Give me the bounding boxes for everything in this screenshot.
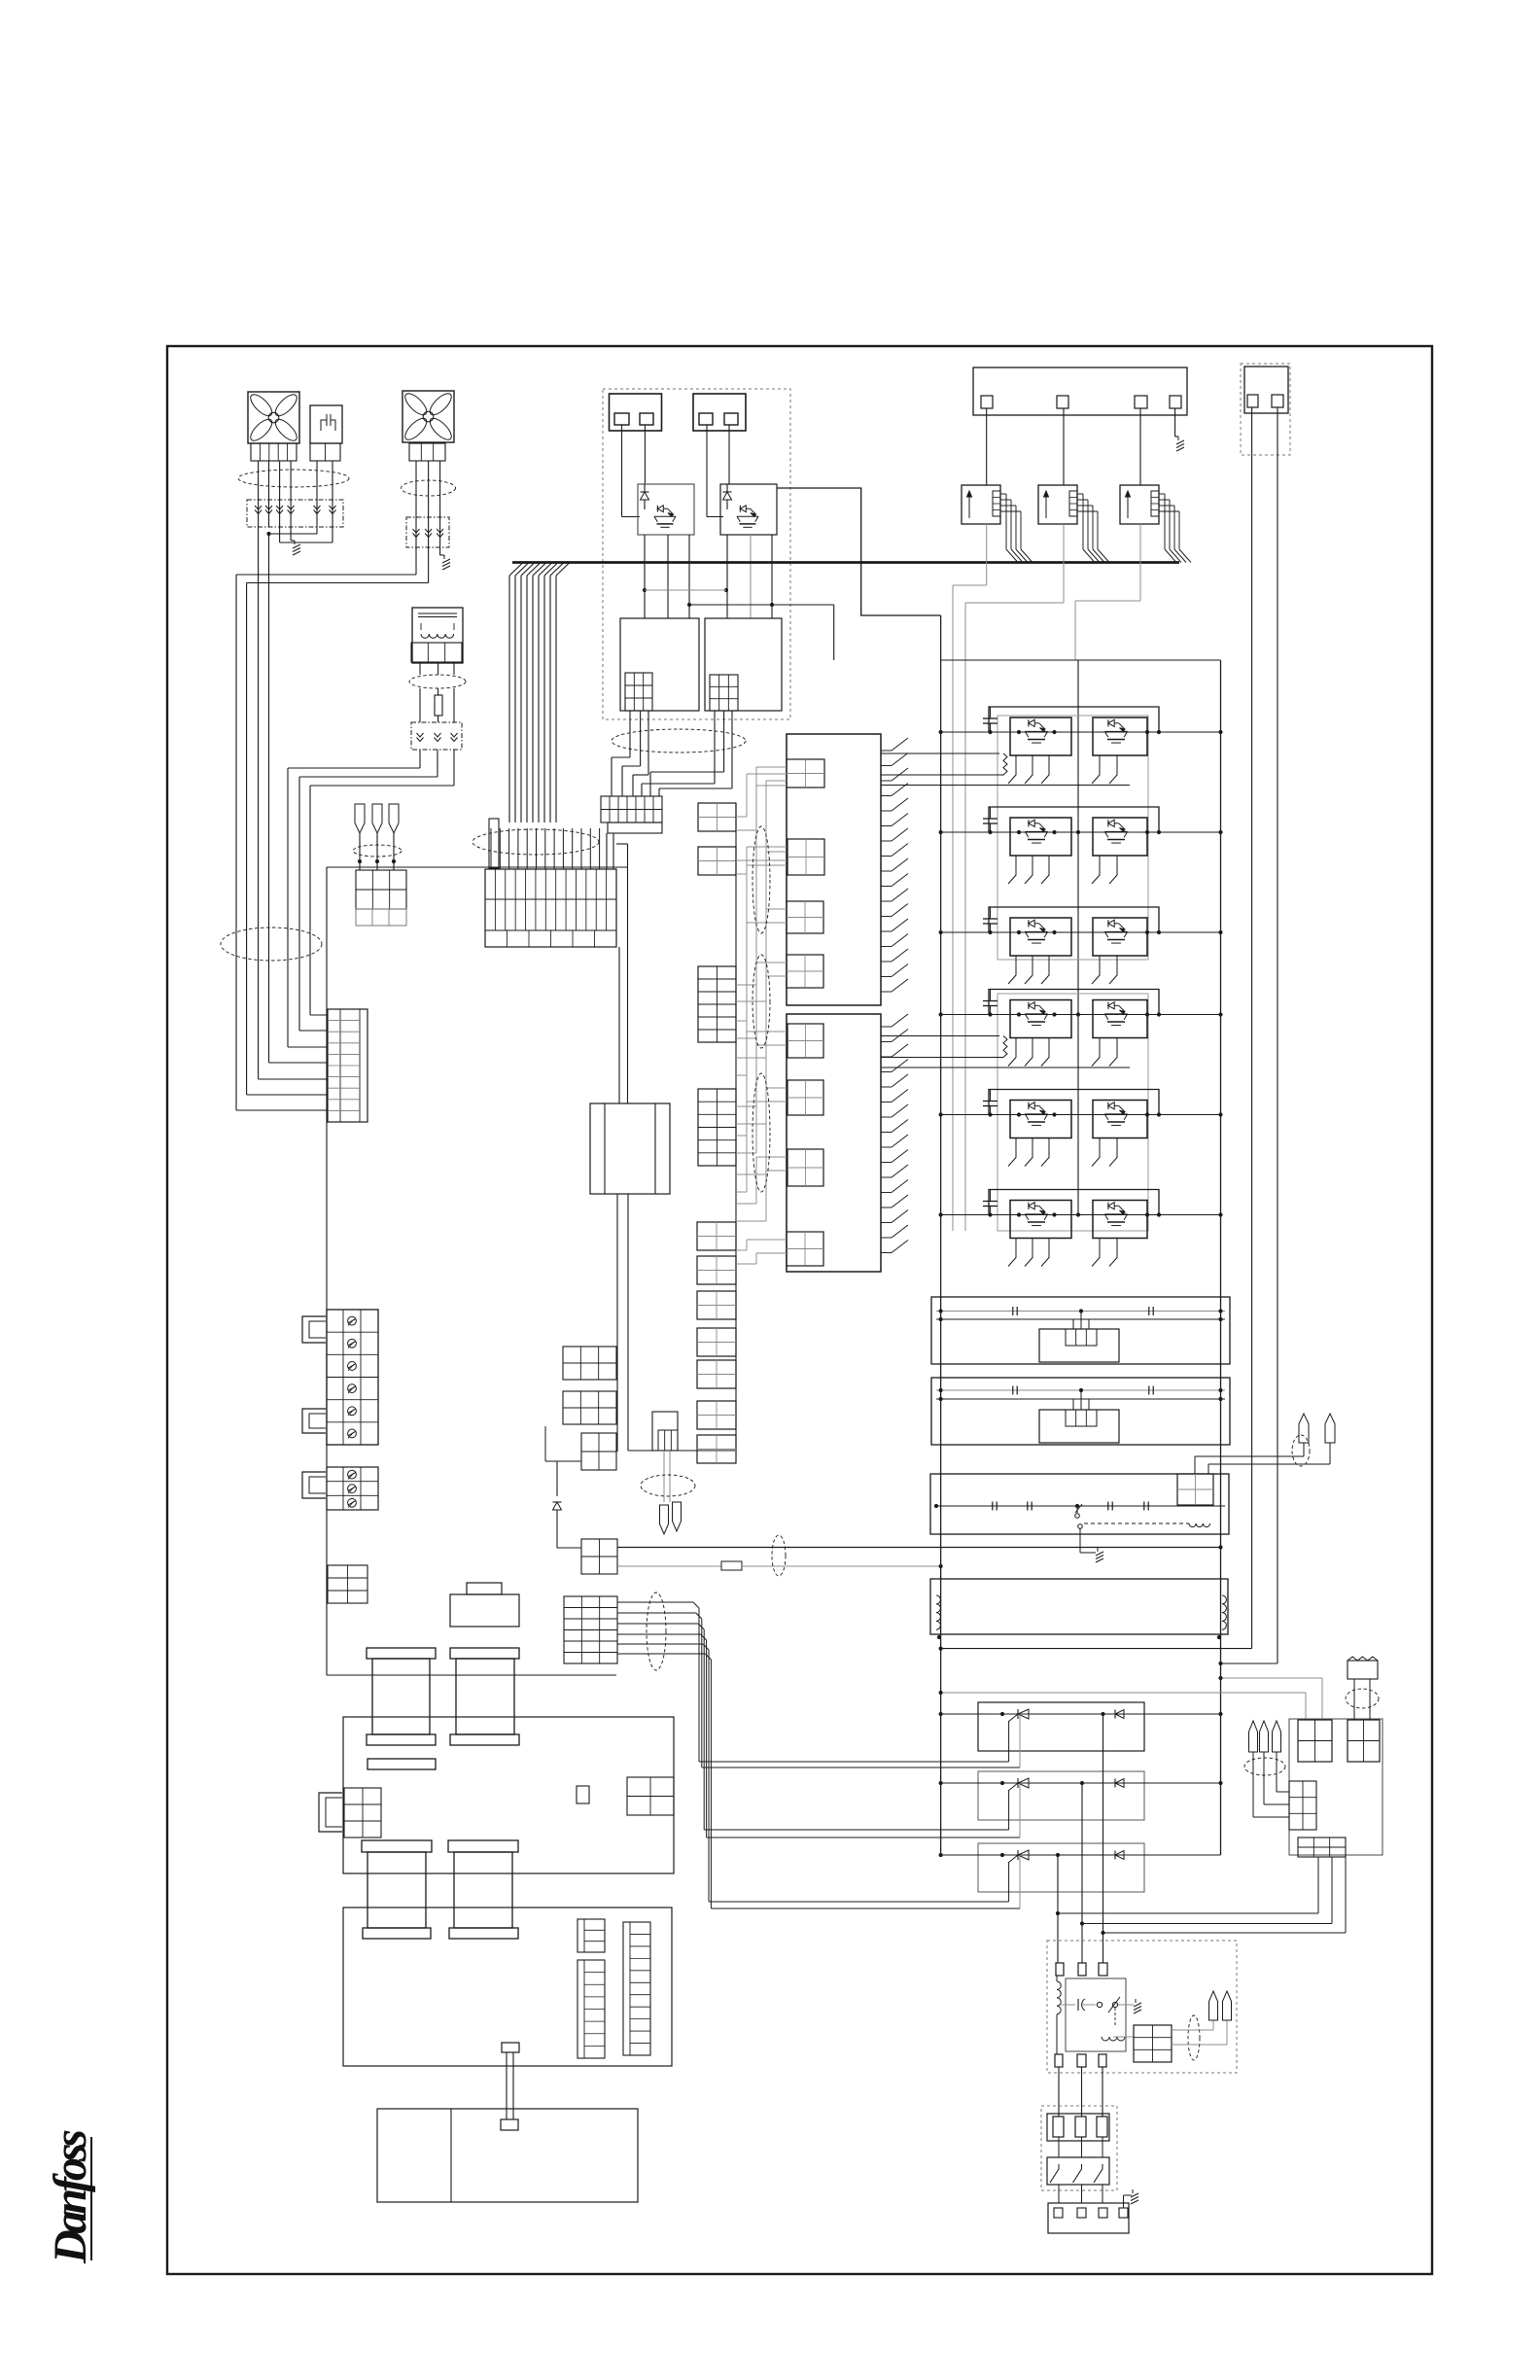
svg-text:Danfoss: Danfoss	[45, 2129, 96, 2264]
